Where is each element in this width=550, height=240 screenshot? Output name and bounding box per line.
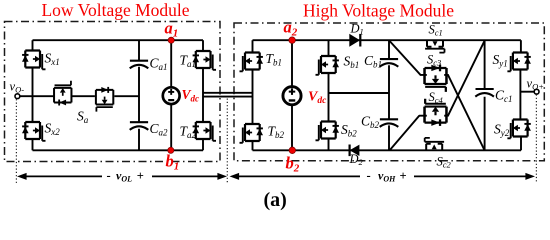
- transistor Sc2: [425, 138, 444, 150]
- source Vdc HV: [283, 87, 301, 105]
- svg-text:D2: D2: [349, 152, 364, 167]
- transistor Ta2: [193, 122, 217, 141]
- wire vO+ tap: [520, 91, 534, 93]
- svg-text:(a): (a): [264, 189, 287, 211]
- svg-text:Sc1: Sc1: [429, 23, 443, 38]
- wire Ta1 drain stub: [202, 40, 204, 51]
- svg-text:vOL: vOL: [116, 169, 132, 184]
- svg-text:High Voltage Module: High Voltage Module: [303, 1, 454, 21]
- svg-text:Sa: Sa: [77, 109, 89, 126]
- svg-text:b2: b2: [286, 154, 300, 175]
- terminal vO-: [15, 94, 20, 99]
- capacitor Cb1: [380, 59, 399, 67]
- svg-text:Ca2: Ca2: [150, 121, 169, 138]
- svg-text:Sb1: Sb1: [344, 54, 360, 71]
- transistor Sy1: [507, 53, 531, 72]
- wire module interconnect lower: [203, 96, 253, 98]
- svg-text:Sy1: Sy1: [493, 52, 508, 69]
- wire Ta2 source stub: [202, 139, 204, 150]
- svg-text:Cb2: Cb2: [361, 114, 380, 131]
- node b1: [168, 147, 174, 153]
- transistor Sb2: [316, 122, 340, 141]
- svg-text:-: -: [367, 169, 371, 183]
- svg-text:Low Voltage Module: Low Voltage Module: [41, 0, 189, 20]
- wire module interconnect upper: [203, 92, 253, 94]
- svg-text:+: +: [137, 169, 144, 183]
- svg-text:Sx1: Sx1: [45, 51, 60, 68]
- Low Voltage Module border: [5, 22, 221, 162]
- transistor Sx1: [22, 51, 46, 70]
- transistor Sc4: [425, 99, 447, 126]
- wire Sb branch: [328, 40, 330, 150]
- node a2: [289, 37, 296, 44]
- wire HV top rail: [253, 39, 521, 41]
- svg-text:Sc3: Sc3: [427, 53, 441, 68]
- wire diagonal rail to Sc3: [389, 41, 427, 75]
- svg-text:vO-: vO-: [10, 80, 25, 95]
- wire Sy1 drain stub corner: [520, 40, 522, 52]
- wire Sb-Cb midpoint link: [329, 92, 390, 94]
- wire vO- terminal to Sa: [20, 95, 54, 97]
- svg-text:D1: D1: [350, 22, 364, 37]
- transistor Tb1: [240, 53, 264, 72]
- capacitor Cb2: [380, 119, 399, 127]
- wire Sc3 to bottom-right diagonal: [444, 75, 484, 150]
- wire Tb2 source stub: [252, 141, 254, 150]
- capacitor Ca2: [130, 122, 149, 130]
- wire Ta1-Ta2 branch: [202, 68, 204, 122]
- svg-text:-: -: [107, 169, 111, 183]
- wire Sa interlink: [71, 95, 95, 97]
- transistor Sa right: [96, 87, 113, 112]
- transistor Sy2: [507, 120, 531, 139]
- svg-text:Vdc: Vdc: [182, 87, 200, 104]
- wire Tb1-Tb2 branch: [252, 70, 254, 125]
- wire Sa to Ca branch: [114, 95, 139, 97]
- wire Sy2 source corner: [520, 137, 522, 151]
- capacitor Cc1: [475, 89, 494, 97]
- svg-text:Ca1: Ca1: [150, 56, 168, 73]
- diode D2: [350, 145, 360, 157]
- transistor Tb2: [240, 124, 264, 143]
- diode D1: [349, 34, 360, 47]
- wire HV bottom rail: [253, 149, 522, 151]
- transistor Sc1: [425, 40, 444, 52]
- wire Sx1 drain stub: [32, 40, 34, 50]
- wire Ca branch: [138, 40, 140, 150]
- svg-text:Sc2: Sc2: [437, 155, 452, 170]
- transistor Ta1: [193, 51, 217, 70]
- wire LV top rail: [33, 39, 204, 41]
- node b2: [289, 147, 296, 154]
- svg-text:Tb2: Tb2: [268, 124, 285, 141]
- capacitor Ca1: [130, 61, 149, 69]
- svg-text:Cc1: Cc1: [495, 88, 513, 105]
- svg-text:+: +: [400, 169, 407, 183]
- arrow vOL: [24, 175, 102, 177]
- svg-text:Cb1: Cb1: [364, 53, 382, 70]
- svg-text:vOH: vOH: [378, 169, 396, 184]
- wire Tb1 drain stub: [252, 40, 254, 52]
- wire Cc1 branch: [484, 40, 486, 150]
- guide below vO+: [535, 94, 537, 183]
- svg-text:Sx2: Sx2: [45, 121, 61, 138]
- node a1: [168, 37, 174, 43]
- svg-text:Sb2: Sb2: [341, 122, 357, 139]
- svg-text:vO+: vO+: [527, 77, 544, 92]
- transistor Sc3: [425, 65, 447, 92]
- svg-text:a2: a2: [284, 18, 298, 39]
- svg-text:Sy2: Sy2: [494, 122, 510, 139]
- svg-text:Tb1: Tb1: [266, 51, 283, 68]
- wire Cb branch: [388, 40, 390, 150]
- svg-text:Vdc: Vdc: [308, 90, 327, 107]
- source Vdc LV: [163, 87, 180, 104]
- wire Sx1-Sx2 branch: [32, 68, 34, 123]
- guide between modules: [226, 99, 228, 184]
- High Voltage Module border: [234, 23, 544, 161]
- wire Sy1-Sy2 branch: [519, 70, 521, 120]
- wire Sx2 source stub: [32, 139, 34, 150]
- transistor Sx2: [22, 122, 46, 141]
- svg-text:b1: b1: [166, 152, 180, 173]
- transistor Sb1: [316, 56, 340, 75]
- wire diagonal bottom rail to Sc4: [390, 116, 427, 150]
- wire LV bottom rail: [33, 149, 204, 151]
- transistor Sa left: [54, 81, 71, 106]
- svg-text:Sc4: Sc4: [429, 90, 444, 105]
- terminal vO+: [534, 89, 539, 94]
- guide below vO-: [15, 99, 17, 184]
- wire Vdc LV branch: [170, 40, 172, 150]
- wire Vdc HV branch: [291, 40, 293, 150]
- wire Sc4 to top-right diagonal: [444, 41, 484, 116]
- arrow vOH: [238, 175, 360, 177]
